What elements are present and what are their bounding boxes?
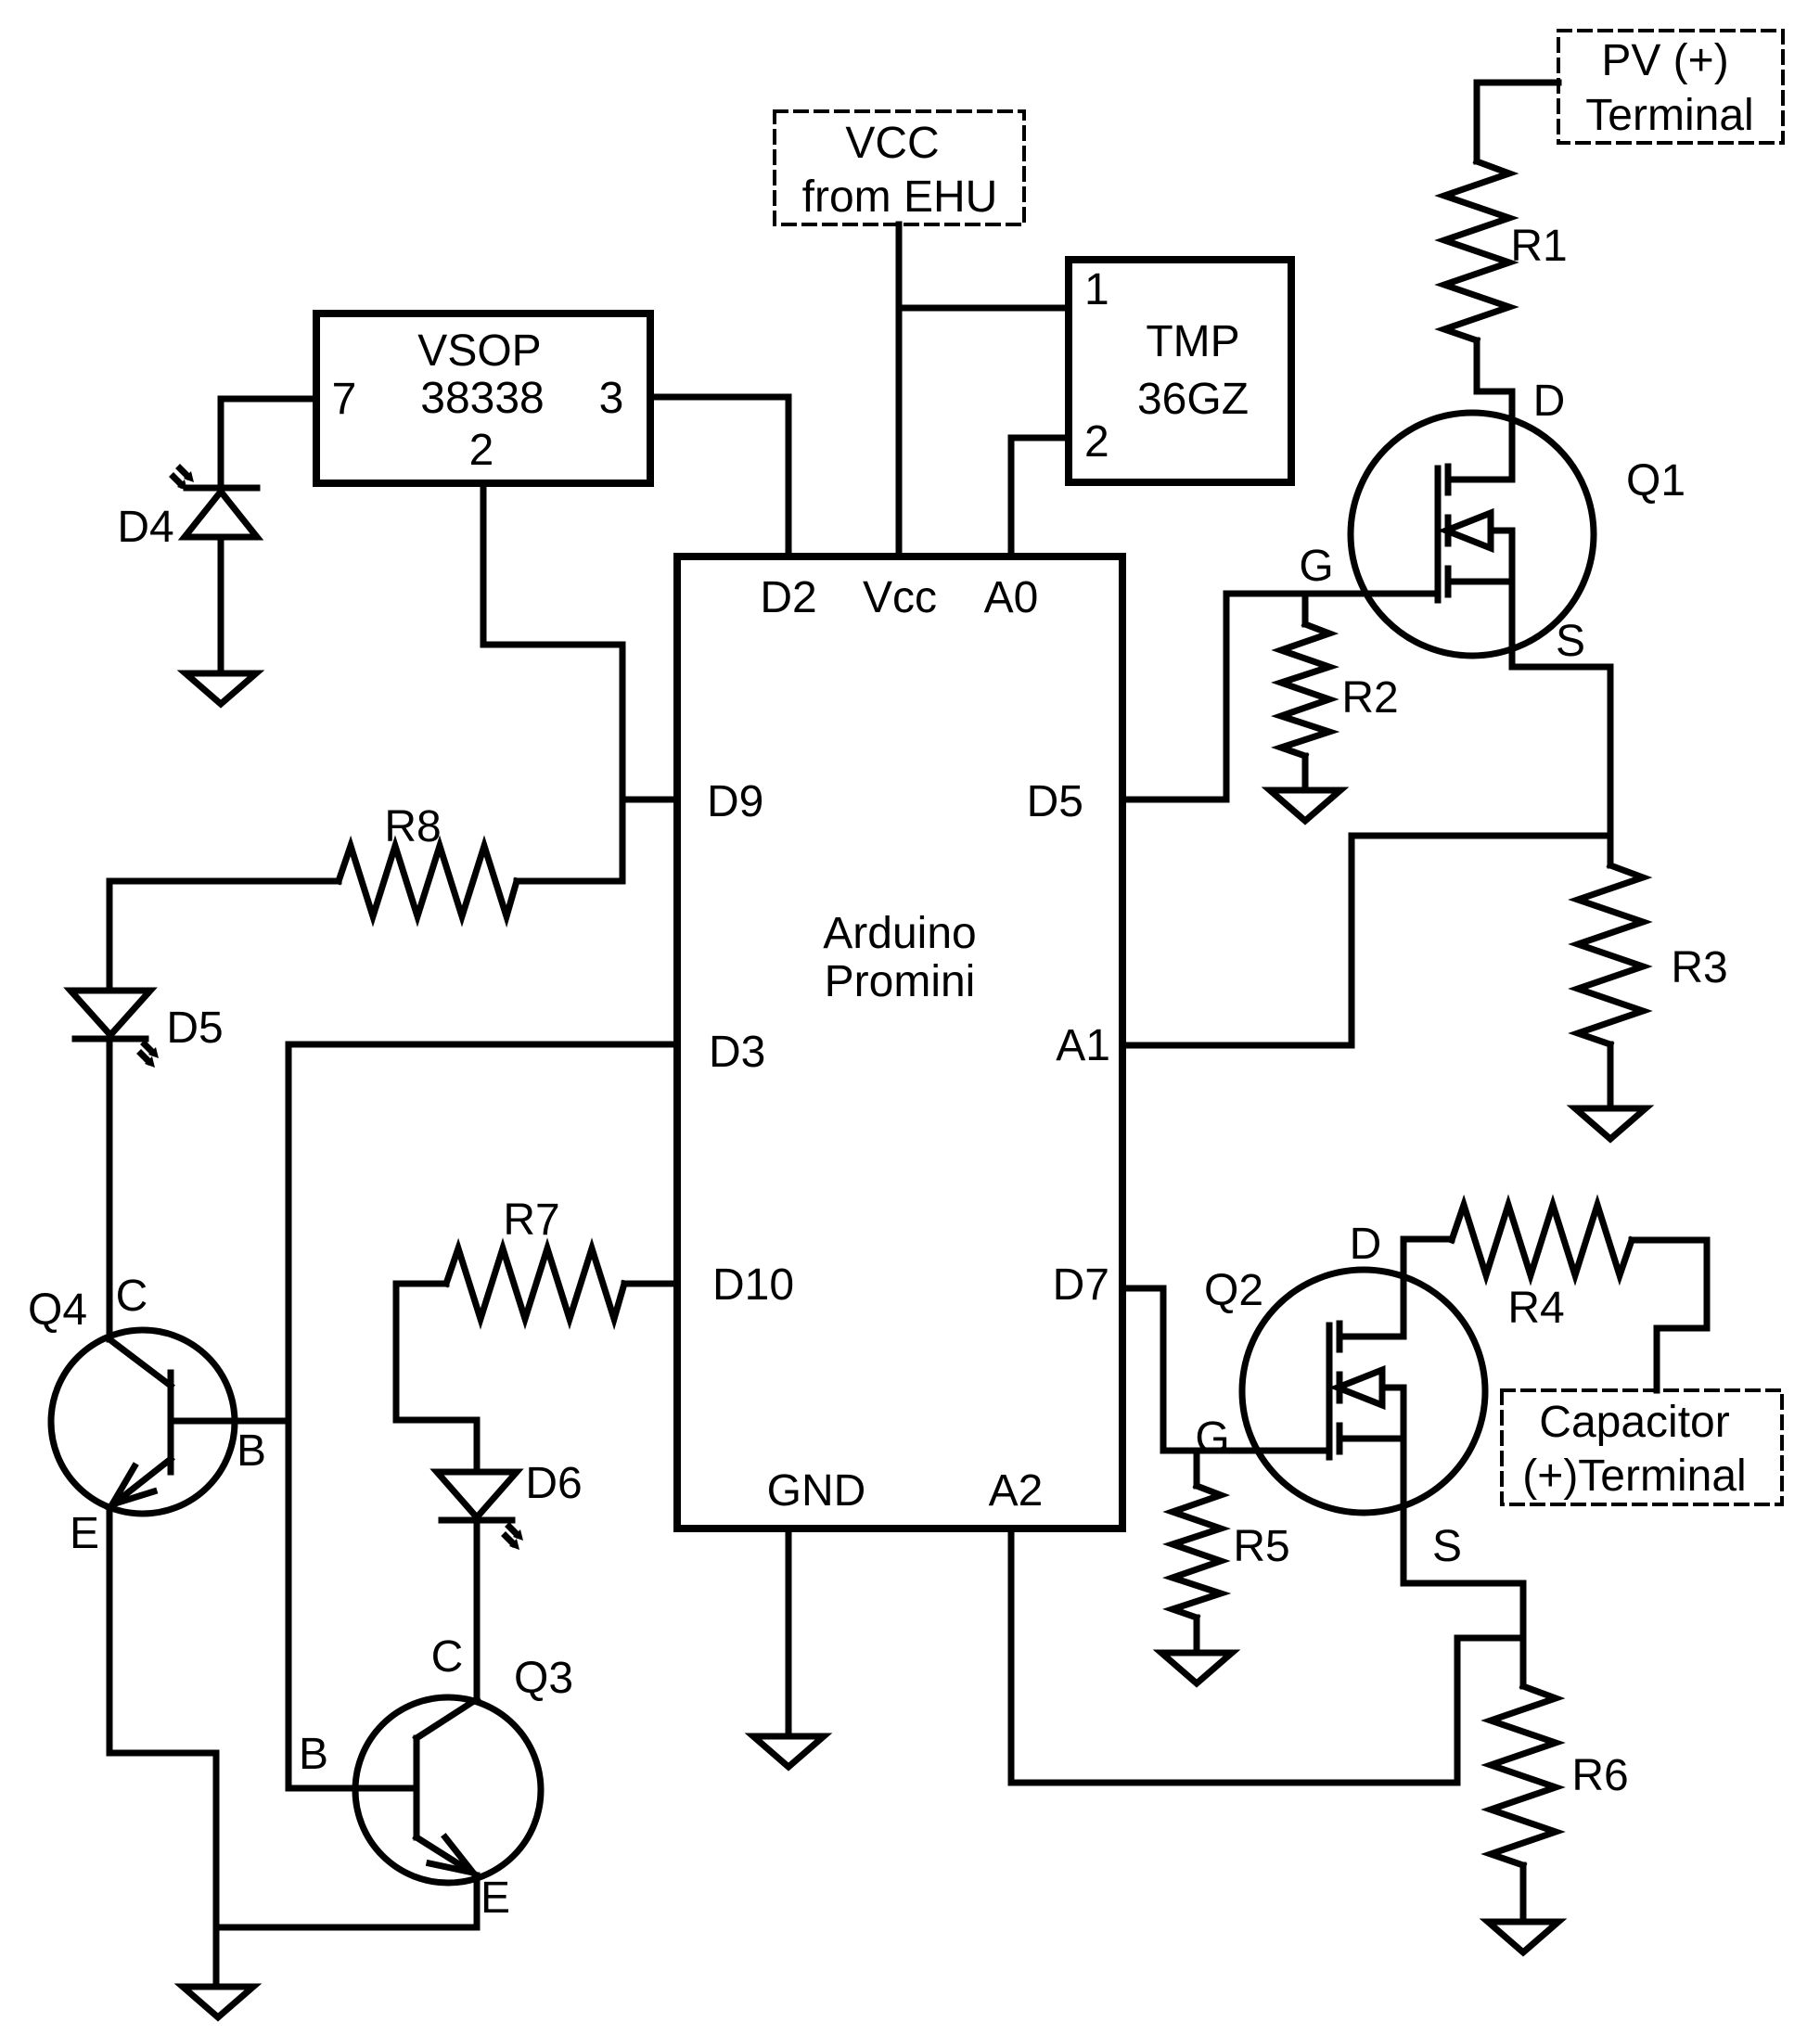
resistor R8 — [339, 846, 517, 916]
wire R1 to Q1 drain — [1477, 340, 1512, 480]
PV (+) Terminal dashed box — [1558, 31, 1783, 143]
transistor Q3 BJT — [288, 1697, 541, 1883]
VCC from EHU dashed box — [775, 111, 1024, 224]
label D4 — [117, 503, 173, 552]
wire R5 bottom to ground — [1194, 1618, 1200, 1653]
TMP 36GZ box — [1069, 260, 1291, 482]
label Q3 pins — [299, 1632, 573, 1923]
wire ground rail to Q3 emitter — [216, 1875, 477, 1927]
label VSOP 38338 and pins — [332, 326, 624, 475]
wire Q1 source down — [1512, 531, 1610, 836]
svg-text:GND: GND — [767, 1466, 866, 1516]
transistor Q1 MOSFET — [1351, 413, 1594, 656]
LED D6 — [437, 1472, 523, 1550]
svg-text:E: E — [70, 1509, 99, 1558]
svg-text:3: 3 — [599, 374, 624, 423]
svg-text:VCC: VCC — [845, 119, 939, 168]
svg-text:Q2: Q2 — [1204, 1266, 1263, 1315]
svg-text:Capacitor: Capacitor — [1539, 1398, 1729, 1447]
resistor R2 — [1281, 624, 1329, 756]
wire Arduino GND to ground — [786, 1530, 792, 1736]
ground below R6 — [1488, 1922, 1558, 1952]
wire PV terminal to R1 — [1477, 83, 1558, 161]
svg-text:36GZ: 36GZ — [1137, 375, 1249, 424]
wire Q2 source down — [1403, 1388, 1523, 1686]
label TMP 36GZ and pins — [1084, 265, 1249, 467]
svg-text:VSOP: VSOP — [417, 326, 541, 376]
svg-text:A0: A0 — [984, 573, 1039, 622]
wire D5 cathode to Q4 collector — [107, 1039, 113, 1339]
svg-text:1: 1 — [1084, 265, 1109, 314]
svg-text:B: B — [237, 1426, 266, 1476]
svg-text:7: 7 — [332, 375, 357, 424]
resistor R6 — [1491, 1686, 1556, 1865]
wire VCC vertical to Arduino Vcc pin — [896, 224, 903, 556]
svg-text:R8: R8 — [384, 802, 441, 851]
label R3 — [1671, 943, 1727, 992]
svg-text:D3: D3 — [709, 1028, 765, 1077]
wire VSOP pin3 to Arduino D2 — [650, 397, 788, 556]
label D5 — [166, 1004, 223, 1053]
wire D6 cathode to Q3 collector — [474, 1520, 481, 1699]
wire D4 cathode to ground — [218, 537, 224, 673]
svg-text:D10: D10 — [712, 1260, 794, 1310]
resistor R5 — [1173, 1486, 1221, 1618]
ground below Q3/Q4 emitter rail — [183, 1987, 253, 2017]
svg-text:A1: A1 — [1056, 1021, 1110, 1070]
label VCC from EHU — [802, 119, 998, 222]
svg-text:D: D — [1350, 1220, 1382, 1269]
ground below D4 — [186, 673, 256, 704]
label Capacitor (+)Terminal — [1522, 1398, 1746, 1501]
svg-text:R3: R3 — [1671, 943, 1727, 992]
svg-text:C: C — [431, 1632, 464, 1682]
wire Q2 drain to R4 — [1403, 1239, 1452, 1337]
svg-text:R2: R2 — [1341, 673, 1398, 723]
label R1 — [1510, 222, 1567, 271]
svg-text:D9: D9 — [707, 777, 763, 826]
ground below R3 — [1575, 1108, 1646, 1139]
wire Arduino D7 to Q2 gate — [1122, 1288, 1329, 1451]
label R6 — [1571, 1751, 1628, 1800]
VSOP 38338 box — [316, 313, 650, 483]
svg-text:TMP: TMP — [1146, 317, 1239, 366]
svg-text:D7: D7 — [1053, 1260, 1109, 1310]
ground below R2 — [1270, 790, 1340, 821]
svg-text:from EHU: from EHU — [802, 173, 998, 222]
resistor R7 — [446, 1248, 624, 1319]
wire Q4 emitter to ground rail — [109, 1507, 216, 1987]
LED D4 — [173, 468, 257, 537]
svg-text:D5: D5 — [166, 1004, 223, 1053]
svg-text:Q3: Q3 — [514, 1654, 573, 1703]
label D6 — [525, 1459, 582, 1508]
svg-text:R5: R5 — [1233, 1522, 1289, 1571]
resistor R4 — [1452, 1205, 1632, 1275]
Arduino Promini box — [677, 556, 1122, 1529]
svg-text:R6: R6 — [1571, 1751, 1628, 1800]
wire Arduino D5 to Q1 gate — [1122, 594, 1438, 800]
svg-text:S: S — [1556, 617, 1585, 666]
svg-text:B: B — [299, 1730, 328, 1779]
label R7 — [503, 1196, 559, 1245]
wire R3 bottom to ground — [1608, 1044, 1614, 1108]
svg-text:R4: R4 — [1507, 1284, 1564, 1333]
svg-text:S: S — [1432, 1522, 1462, 1571]
svg-text:R1: R1 — [1510, 222, 1567, 271]
label Q2 pins — [1195, 1220, 1462, 1571]
svg-text:Q1: Q1 — [1626, 456, 1685, 505]
label Arduino Promini and pins — [707, 573, 1110, 1516]
label Q1 pins — [1299, 377, 1685, 666]
label R4 — [1507, 1284, 1564, 1333]
transistor Q4 BJT — [51, 1330, 288, 1514]
label R8 — [384, 802, 441, 851]
wire R7 to D6 anode — [396, 1284, 477, 1472]
svg-text:Promini: Promini — [825, 957, 976, 1006]
svg-text:D: D — [1533, 377, 1566, 426]
label R5 — [1233, 1522, 1289, 1571]
svg-text:(+)Terminal: (+)Terminal — [1522, 1452, 1746, 1501]
LED D5 — [70, 991, 159, 1068]
svg-text:D4: D4 — [117, 503, 173, 552]
wire node to Arduino D9 — [622, 797, 677, 803]
label R2 — [1341, 673, 1398, 723]
wire Arduino A2 to source node of Q2 — [1011, 1530, 1523, 1783]
ground below Arduino GND — [753, 1736, 824, 1767]
label Q4 pins — [28, 1272, 266, 1558]
svg-text:Arduino: Arduino — [823, 909, 976, 958]
svg-text:G: G — [1299, 542, 1333, 591]
wire Arduino D10 to R7 — [624, 1281, 677, 1287]
Capacitor (+) Terminal dashed box — [1502, 1390, 1782, 1504]
wire VCC branch to TMP pin 1 — [899, 305, 1069, 312]
svg-text:D5: D5 — [1027, 777, 1083, 826]
svg-text:Vcc: Vcc — [863, 573, 937, 622]
svg-text:2: 2 — [1084, 417, 1109, 467]
svg-text:38338: 38338 — [420, 374, 544, 423]
transistor Q2 MOSFET — [1242, 1270, 1485, 1513]
resistor R1 — [1444, 161, 1509, 340]
svg-text:C: C — [116, 1272, 148, 1321]
wire R6 bottom to ground — [1520, 1865, 1527, 1922]
svg-text:A2: A2 — [989, 1466, 1044, 1516]
svg-text:2: 2 — [469, 426, 494, 475]
svg-text:G: G — [1195, 1414, 1229, 1463]
wire R8 to D5 anode — [109, 881, 339, 991]
svg-text:D2: D2 — [760, 573, 816, 622]
wire source node to Arduino A1 — [1122, 836, 1610, 1045]
svg-text:Terminal: Terminal — [1585, 91, 1753, 140]
svg-text:R7: R7 — [503, 1196, 559, 1245]
wire VSOP pin7 to D4 — [221, 399, 316, 488]
wire R5 top lead — [1194, 1451, 1200, 1486]
svg-text:Q4: Q4 — [28, 1286, 87, 1335]
wire R4 right lead to capacitor terminal — [1632, 1240, 1707, 1390]
wire VSOP pin2 to D9 node — [483, 483, 622, 881]
svg-text:E: E — [481, 1874, 510, 1923]
wire R2 top lead — [1302, 594, 1309, 624]
wire Arduino D3 to Q3/Q4 bases — [288, 1044, 677, 1788]
wire R3 top lead — [1608, 836, 1614, 865]
wire TMP pin2 to Arduino A0 — [1011, 438, 1069, 556]
ground below R5 — [1161, 1653, 1232, 1683]
label PV (+) Terminal — [1585, 36, 1753, 140]
resistor R3 — [1578, 865, 1643, 1044]
svg-text:PV (+): PV (+) — [1601, 36, 1728, 85]
wire R2 bottom to ground — [1302, 756, 1309, 790]
svg-text:D6: D6 — [525, 1459, 582, 1508]
